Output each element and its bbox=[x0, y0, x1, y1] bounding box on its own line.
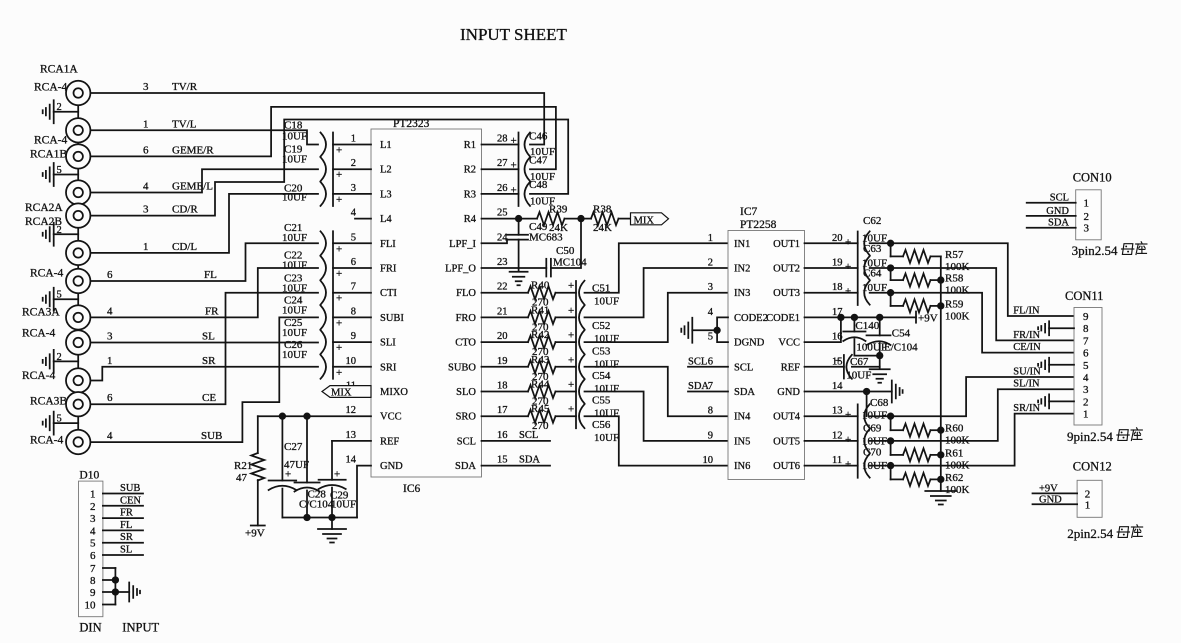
RCA jack circle 4 bbox=[66, 180, 90, 204]
svg-text:CTI: CTI bbox=[380, 288, 397, 299]
svg-text:10UF: 10UF bbox=[846, 369, 871, 381]
svg-text:SL/IN: SL/IN bbox=[1013, 379, 1040, 390]
wire SR to C26 bbox=[91, 367, 319, 381]
svg-text:R60: R60 bbox=[945, 423, 964, 435]
node dots on rail bbox=[304, 515, 310, 521]
CON12 pin 1 GND bbox=[1033, 503, 1078, 505]
RCA jack circle 1 bbox=[66, 81, 90, 105]
shared straight plate C51-C56 bbox=[575, 281, 577, 428]
svg-text:10UF: 10UF bbox=[282, 192, 307, 204]
svg-text:1: 1 bbox=[143, 118, 149, 130]
svg-text:10: 10 bbox=[346, 356, 357, 367]
svg-text:CODE2: CODE2 bbox=[734, 313, 768, 324]
capacitor C47 10UF (IC6 pin 27) bbox=[482, 168, 519, 170]
resistor R43 270 (pin 19) bbox=[482, 366, 529, 368]
ground on CON11 pin 8 bbox=[1049, 327, 1074, 329]
resistor R39 24K bbox=[519, 218, 537, 220]
svg-text:GEME/R: GEME/R bbox=[172, 144, 214, 156]
svg-text:10UF: 10UF bbox=[282, 154, 307, 166]
svg-text:28: 28 bbox=[497, 134, 508, 145]
svg-text:CON11: CON11 bbox=[1065, 289, 1103, 303]
svg-text:9: 9 bbox=[351, 331, 356, 342]
svg-text:R62: R62 bbox=[945, 472, 963, 484]
resistor R44 270 (pin 18) bbox=[482, 391, 529, 393]
svg-text:CON10: CON10 bbox=[1073, 171, 1112, 185]
svg-text:27: 27 bbox=[497, 158, 508, 169]
svg-text:10UF: 10UF bbox=[594, 333, 619, 345]
svg-text:24K: 24K bbox=[593, 222, 612, 234]
wire C53 output to IC7 IN3 bbox=[585, 293, 729, 342]
svg-text:1: 1 bbox=[107, 355, 113, 367]
svg-text:SUB: SUB bbox=[120, 483, 140, 494]
connector CON12 box bbox=[1077, 480, 1102, 517]
node MIX output flag bbox=[631, 213, 669, 225]
svg-text:R1: R1 bbox=[464, 140, 476, 151]
capacitor C69 10UF (IC7 pin 12) bbox=[805, 440, 858, 442]
svg-text:8: 8 bbox=[1083, 323, 1089, 335]
svg-text:C46: C46 bbox=[529, 131, 548, 143]
svg-text:DIN: DIN bbox=[79, 621, 101, 635]
svg-text:DGND: DGND bbox=[734, 338, 765, 349]
svg-text:FRI: FRI bbox=[380, 264, 397, 275]
wire C50 to R38 junction bbox=[551, 219, 581, 268]
svg-text:+: + bbox=[568, 305, 574, 317]
ground at DGND bbox=[681, 318, 692, 343]
wire C140 to C54 bottom node bbox=[854, 355, 879, 357]
svg-text:4: 4 bbox=[90, 525, 96, 537]
svg-text:3: 3 bbox=[351, 183, 356, 194]
RCA jack circle 3 bbox=[66, 144, 90, 168]
svg-text:D10: D10 bbox=[79, 469, 99, 481]
svg-text:R2: R2 bbox=[464, 165, 476, 176]
resistor R21 47 bbox=[257, 416, 259, 453]
RCA shield ground 1 (pin 2) bbox=[54, 111, 78, 113]
svg-text:5: 5 bbox=[90, 538, 96, 550]
RCA shield ground 6 (pin 5) bbox=[54, 422, 78, 424]
wire IC6 pin 1 stub bbox=[333, 144, 371, 146]
capacitor C52 10UF bbox=[579, 305, 585, 329]
svg-text:9: 9 bbox=[708, 430, 713, 441]
node dot bottom bbox=[877, 353, 883, 359]
wire SCL stub IC7 pin6 bbox=[688, 366, 728, 368]
svg-text:10: 10 bbox=[703, 455, 714, 466]
svg-text:SCL: SCL bbox=[457, 436, 476, 447]
wire VCC pin 12 rail bbox=[258, 415, 371, 417]
svg-text:14: 14 bbox=[346, 455, 357, 466]
svg-text:4: 4 bbox=[143, 181, 149, 193]
svg-text:FR: FR bbox=[205, 305, 219, 317]
svg-text:R43: R43 bbox=[531, 354, 550, 366]
capacitor C21 10UF (IC6 pin 5) bbox=[321, 231, 327, 255]
svg-text:E/C104: E/C104 bbox=[884, 342, 918, 354]
svg-text:FL/IN: FL/IN bbox=[1013, 306, 1040, 317]
svg-text:9pin2.54: 9pin2.54 bbox=[1067, 429, 1113, 444]
wire GND pin14 down to rail bbox=[357, 466, 371, 518]
capacitor C68 10UF (IC7 pin 13) bbox=[805, 415, 858, 417]
capacitor C19 10UF (IC6 pin 2) bbox=[321, 157, 327, 181]
capacitor C22 10UF (IC6 pin 6) bbox=[321, 256, 327, 280]
svg-text:+: + bbox=[334, 469, 340, 481]
svg-text:CD/R: CD/R bbox=[172, 204, 198, 216]
svg-text:FR: FR bbox=[120, 508, 133, 519]
svg-text:6: 6 bbox=[90, 550, 96, 562]
svg-text:PT2323: PT2323 bbox=[393, 118, 430, 130]
ground below C29 rail bbox=[331, 518, 333, 530]
svg-text:19: 19 bbox=[832, 258, 843, 269]
svg-text:SU/IN: SU/IN bbox=[1013, 367, 1041, 378]
svg-text:1: 1 bbox=[90, 489, 96, 501]
svg-text:C50: C50 bbox=[556, 245, 575, 257]
capacitor C63 10UF (IC7 pin 19) bbox=[805, 267, 858, 269]
RCA jack circle 5 bbox=[66, 203, 90, 227]
svg-text:5: 5 bbox=[57, 414, 62, 425]
wire 100K pulldown bus bbox=[940, 256, 942, 491]
svg-text:R57: R57 bbox=[945, 249, 964, 261]
svg-text:10UF: 10UF bbox=[282, 283, 307, 295]
capacitor C67 10UF on REF pin15 bbox=[805, 366, 844, 368]
svg-text:10: 10 bbox=[85, 600, 97, 612]
resistor R45 270 (pin 17) bbox=[482, 415, 529, 417]
svg-text:FL: FL bbox=[204, 269, 217, 281]
svg-text:+: + bbox=[336, 367, 342, 379]
svg-text:RCA-4: RCA-4 bbox=[22, 328, 55, 340]
D10 pin 6 wire and label SL bbox=[103, 554, 143, 556]
svg-text:7: 7 bbox=[1083, 335, 1089, 347]
svg-text:C56: C56 bbox=[592, 419, 611, 431]
svg-text:1: 1 bbox=[1085, 499, 1091, 511]
svg-text:100K: 100K bbox=[945, 310, 970, 322]
svg-text:+9V: +9V bbox=[245, 528, 265, 540]
svg-text:10UF: 10UF bbox=[282, 305, 307, 317]
svg-text:18: 18 bbox=[497, 381, 508, 392]
svg-text:IN2: IN2 bbox=[734, 264, 750, 275]
capacitor C26 10UF (IC6 pin 10) bbox=[321, 355, 327, 379]
wire GEME/R to C47 bbox=[91, 107, 556, 169]
wire R4 pin25 bbox=[482, 218, 519, 220]
wire CODE1 pin17 to +9V bbox=[805, 316, 917, 318]
RCA shield ground 2 (pin 5) bbox=[54, 174, 78, 176]
svg-text:IN5: IN5 bbox=[734, 436, 750, 447]
resistor R57 100K bbox=[888, 241, 894, 247]
svg-text:INPUT: INPUT bbox=[122, 621, 159, 635]
svg-text:+: + bbox=[336, 317, 342, 329]
node dot R59 on bus bbox=[938, 303, 944, 309]
ground under C54 bbox=[870, 369, 890, 383]
RCA jack circle 2 bbox=[66, 118, 90, 142]
svg-text:MC104: MC104 bbox=[553, 257, 587, 269]
capacitor C54 10UF bbox=[579, 355, 585, 379]
D10 pin 8 stub bbox=[103, 579, 116, 581]
svg-text:CODE1: CODE1 bbox=[766, 313, 800, 324]
RCA jack circle 9 bbox=[66, 330, 90, 354]
svg-text:+: + bbox=[568, 354, 574, 366]
svg-text:8: 8 bbox=[708, 406, 713, 417]
capacitor C18 10UF (IC6 pin 1) bbox=[321, 133, 327, 157]
ground on CON11 pin 2 bbox=[1049, 400, 1074, 402]
svg-text:GND: GND bbox=[380, 461, 403, 472]
svg-text:R21: R21 bbox=[234, 460, 252, 472]
svg-text:22: 22 bbox=[497, 282, 508, 293]
svg-text:IN4: IN4 bbox=[734, 412, 751, 423]
svg-text:5: 5 bbox=[57, 165, 62, 176]
svg-text:+: + bbox=[285, 469, 291, 481]
svg-text:SL: SL bbox=[120, 545, 132, 556]
svg-text:RCA-4: RCA-4 bbox=[22, 370, 55, 382]
svg-text:MIX: MIX bbox=[331, 388, 352, 399]
ground at D10 bbox=[129, 583, 140, 602]
svg-text:SDA: SDA bbox=[1048, 218, 1069, 229]
svg-text:C47: C47 bbox=[529, 155, 548, 167]
svg-text:3: 3 bbox=[90, 513, 96, 525]
svg-text:PT2258: PT2258 bbox=[740, 219, 777, 231]
svg-text:GEME/L: GEME/L bbox=[172, 181, 213, 193]
node dot GND pin14 bbox=[864, 389, 870, 395]
svg-text:OUT4: OUT4 bbox=[773, 412, 801, 423]
wire C51 output to IC7 IN1 bbox=[585, 243, 729, 292]
svg-text:3: 3 bbox=[1084, 223, 1090, 235]
svg-text:+9V: +9V bbox=[1039, 483, 1058, 494]
svg-text:IC6: IC6 bbox=[403, 483, 421, 495]
svg-text:6: 6 bbox=[107, 269, 113, 281]
svg-text:+: + bbox=[568, 330, 574, 342]
svg-text:C63: C63 bbox=[863, 243, 882, 255]
wire C55 output to IC7 IN5 bbox=[585, 392, 729, 441]
svg-text:FLO: FLO bbox=[456, 288, 476, 299]
svg-text:21: 21 bbox=[497, 306, 508, 317]
svg-text:RCA-4: RCA-4 bbox=[30, 268, 63, 280]
svg-text:+: + bbox=[511, 160, 517, 172]
svg-text:SRO: SRO bbox=[456, 412, 477, 423]
svg-text:270: 270 bbox=[532, 420, 549, 432]
resistor R40 270 (pin 22) bbox=[482, 292, 529, 294]
svg-text:R58: R58 bbox=[945, 273, 964, 285]
svg-text:100K: 100K bbox=[945, 435, 970, 447]
svg-text:SUBI: SUBI bbox=[380, 313, 404, 324]
svg-text:+: + bbox=[336, 243, 342, 255]
wire IC6 pin 6 stub bbox=[333, 267, 371, 269]
svg-text:CD/L: CD/L bbox=[172, 241, 197, 253]
node dots on +9V rail bbox=[838, 315, 844, 321]
wire CODE2 pin4 / DGND pin5 tie bbox=[717, 317, 728, 342]
svg-text:MIXO: MIXO bbox=[380, 387, 408, 398]
svg-text:R3: R3 bbox=[464, 189, 476, 200]
wire IC6 pin 4 stub bbox=[355, 218, 371, 220]
svg-text:OUT2: OUT2 bbox=[773, 264, 800, 275]
wire OUT4 (pin 13) to CON11 bbox=[870, 377, 1074, 416]
wire TV/R to C46 bbox=[91, 93, 545, 145]
RCA shield ground 4 (pin 5) bbox=[54, 298, 78, 300]
svg-text:SR: SR bbox=[120, 532, 133, 543]
svg-text:2pin2.54: 2pin2.54 bbox=[1067, 526, 1113, 541]
svg-text:FLI: FLI bbox=[380, 239, 396, 250]
D10 pin 5 wire and label SR bbox=[103, 542, 143, 544]
node dot R60 on bus bbox=[938, 427, 944, 433]
svg-text:RCA2A: RCA2A bbox=[25, 202, 63, 214]
svg-text:SCL: SCL bbox=[1050, 193, 1069, 204]
svg-text:C/C104: C/C104 bbox=[299, 499, 334, 511]
wire CD/R to C48 bbox=[91, 120, 569, 216]
svg-text:SUB: SUB bbox=[201, 430, 222, 442]
node dot DGND tie bbox=[714, 328, 720, 334]
svg-text:SCL: SCL bbox=[688, 356, 707, 367]
capacitor C23 10UF (IC6 pin 7) bbox=[321, 281, 327, 305]
svg-text:L2: L2 bbox=[380, 165, 392, 176]
svg-text:CEN: CEN bbox=[120, 495, 141, 506]
svg-text:INPUT SHEET: INPUT SHEET bbox=[460, 25, 567, 44]
svg-text:+9V: +9V bbox=[918, 313, 938, 325]
ground on CON11 pin 5 bbox=[1049, 364, 1074, 366]
svg-text:6: 6 bbox=[708, 356, 713, 367]
svg-text:RCA3A: RCA3A bbox=[22, 307, 60, 319]
svg-text:C48: C48 bbox=[529, 179, 548, 191]
svg-text:TV/L: TV/L bbox=[172, 118, 197, 130]
svg-text:TV/R: TV/R bbox=[172, 81, 198, 93]
svg-text:3: 3 bbox=[1083, 384, 1089, 396]
node dot R4 bbox=[516, 216, 522, 222]
svg-text:REF: REF bbox=[781, 362, 800, 373]
RCA jack circle 7 bbox=[66, 269, 90, 293]
capacitor C55 10UF bbox=[579, 380, 585, 404]
svg-text:OUT6: OUT6 bbox=[773, 461, 800, 472]
CON10 pin 3 SDA bbox=[1027, 227, 1076, 229]
svg-text:25: 25 bbox=[497, 208, 508, 219]
capacitor C46 10UF (IC6 pin 28) bbox=[482, 144, 519, 146]
wire TV/L to C18 bbox=[91, 130, 319, 144]
wire IC6 pin 7 stub bbox=[333, 292, 371, 294]
svg-text:9: 9 bbox=[90, 587, 96, 599]
svg-text:18: 18 bbox=[832, 282, 843, 293]
svg-text:6: 6 bbox=[1083, 348, 1089, 360]
svg-text:R42: R42 bbox=[531, 329, 549, 341]
svg-text:C27: C27 bbox=[284, 441, 303, 453]
RCA shield ground 3 (pin 2) bbox=[54, 233, 78, 235]
capacitor C49 MC683 bbox=[518, 219, 520, 235]
shared straight plate C46-C48 bbox=[518, 133, 520, 207]
RCA jack circle 6 bbox=[66, 241, 90, 265]
svg-text:10UF: 10UF bbox=[282, 349, 307, 361]
svg-text:IN3: IN3 bbox=[734, 288, 750, 299]
svg-text:100K: 100K bbox=[945, 285, 970, 297]
svg-text:13: 13 bbox=[346, 430, 357, 441]
svg-text:+: + bbox=[835, 355, 841, 367]
svg-text:10UF: 10UF bbox=[594, 383, 619, 395]
svg-text:2: 2 bbox=[57, 352, 62, 363]
svg-text:C52: C52 bbox=[592, 320, 610, 332]
svg-text:SR/IN: SR/IN bbox=[1013, 403, 1040, 414]
ground at bottom of 100K bus bbox=[925, 491, 956, 505]
svg-text:10UF: 10UF bbox=[282, 327, 307, 339]
svg-text:17: 17 bbox=[497, 405, 508, 416]
capacitor C24 10UF (IC6 pin 8) bbox=[321, 305, 327, 329]
power +9V terminal at R21 bbox=[251, 525, 265, 527]
svg-text:R61: R61 bbox=[945, 447, 963, 459]
svg-text:2: 2 bbox=[1084, 211, 1090, 223]
svg-text:2: 2 bbox=[90, 501, 96, 513]
svg-text:26: 26 bbox=[497, 183, 508, 194]
svg-text:C69: C69 bbox=[863, 423, 882, 435]
svg-text:FR/IN: FR/IN bbox=[1013, 330, 1040, 341]
wire SDA stub pin15 bbox=[482, 465, 551, 467]
svg-text:3: 3 bbox=[107, 331, 113, 343]
capacitor C29 bbox=[331, 441, 333, 480]
shared straight plate C62-C64 bbox=[857, 232, 859, 306]
capacitor C27 47UF bbox=[281, 416, 283, 480]
svg-text:+: + bbox=[336, 293, 342, 305]
svg-text:19: 19 bbox=[497, 356, 508, 367]
CON10 pin 2 GND bbox=[1027, 215, 1076, 217]
CON10 pin 1 SCL bbox=[1027, 202, 1076, 204]
svg-text:8: 8 bbox=[90, 575, 96, 587]
node junction dots on VCC rail bbox=[280, 413, 286, 419]
capacitor C62 10UF (IC7 pin 20) bbox=[805, 242, 858, 244]
node dot R62 on bus bbox=[938, 477, 944, 483]
power +9V tick bbox=[915, 312, 917, 323]
svg-text:+: + bbox=[845, 434, 851, 446]
svg-text:100K: 100K bbox=[945, 459, 970, 471]
svg-text:1: 1 bbox=[351, 134, 356, 145]
svg-text:+: + bbox=[568, 379, 574, 391]
wire C52 output to IC7 IN2 bbox=[585, 268, 729, 317]
svg-text:16: 16 bbox=[497, 430, 508, 441]
node dot R39/R38/C50 junction bbox=[578, 216, 584, 222]
svg-text:+: + bbox=[336, 268, 342, 280]
wire IC6 pin 8 stub bbox=[333, 316, 371, 318]
svg-text:CE: CE bbox=[202, 392, 216, 404]
wire pin14 node down to OUT4 row bbox=[866, 392, 868, 417]
svg-text:1: 1 bbox=[1084, 198, 1090, 210]
capacitor C56 10UF bbox=[579, 404, 585, 428]
svg-text:10UF: 10UF bbox=[594, 296, 619, 308]
connector CON10 box bbox=[1076, 190, 1102, 240]
RCA jack circle 10 bbox=[66, 368, 90, 392]
svg-text:15: 15 bbox=[497, 455, 508, 466]
svg-text:4: 4 bbox=[1083, 372, 1089, 384]
svg-text:SDA: SDA bbox=[455, 461, 476, 472]
shared straight plate C18-C20 bbox=[332, 133, 334, 207]
svg-text:GND: GND bbox=[777, 387, 800, 398]
svg-text:RCA-4: RCA-4 bbox=[30, 435, 63, 447]
svg-text:10UF: 10UF bbox=[282, 232, 307, 244]
wire OUT3 (pin 18) to CON11 bbox=[870, 293, 1074, 353]
svg-text:6: 6 bbox=[107, 392, 113, 404]
D10 pin 4 wire and label FL bbox=[103, 529, 143, 531]
svg-text:2: 2 bbox=[57, 102, 62, 113]
svg-text:SDA: SDA bbox=[734, 387, 755, 398]
svg-text:R45: R45 bbox=[531, 403, 550, 415]
svg-text:7: 7 bbox=[351, 282, 356, 293]
svg-text:4: 4 bbox=[107, 305, 113, 317]
svg-text:RCA-4: RCA-4 bbox=[34, 82, 67, 94]
node dot R58 on bus bbox=[938, 277, 944, 283]
node MIX flag at MIXO pin 11 bbox=[322, 386, 371, 398]
wire OUT5 (pin 12) to CON11 bbox=[870, 389, 1074, 441]
svg-text:RCA3B: RCA3B bbox=[30, 396, 67, 408]
svg-text:RCA2B: RCA2B bbox=[25, 216, 62, 228]
svg-text:+: + bbox=[845, 286, 851, 298]
svg-text:R39: R39 bbox=[549, 204, 568, 216]
ground below C49 bbox=[510, 272, 528, 286]
D10 pin 9 stub bbox=[103, 591, 116, 593]
svg-text:4: 4 bbox=[351, 208, 357, 219]
RCA jack circle 12 bbox=[66, 430, 90, 454]
wire IC6 pin 9 stub bbox=[333, 341, 371, 343]
D10 pin 1 wire and label SUB bbox=[103, 493, 143, 495]
node dots D10 bus bbox=[113, 577, 119, 583]
svg-text:MIX: MIX bbox=[634, 216, 655, 227]
svg-text:SDA: SDA bbox=[688, 381, 709, 392]
svg-text:SLI: SLI bbox=[380, 338, 396, 349]
capacitor C54 bbox=[879, 317, 881, 335]
